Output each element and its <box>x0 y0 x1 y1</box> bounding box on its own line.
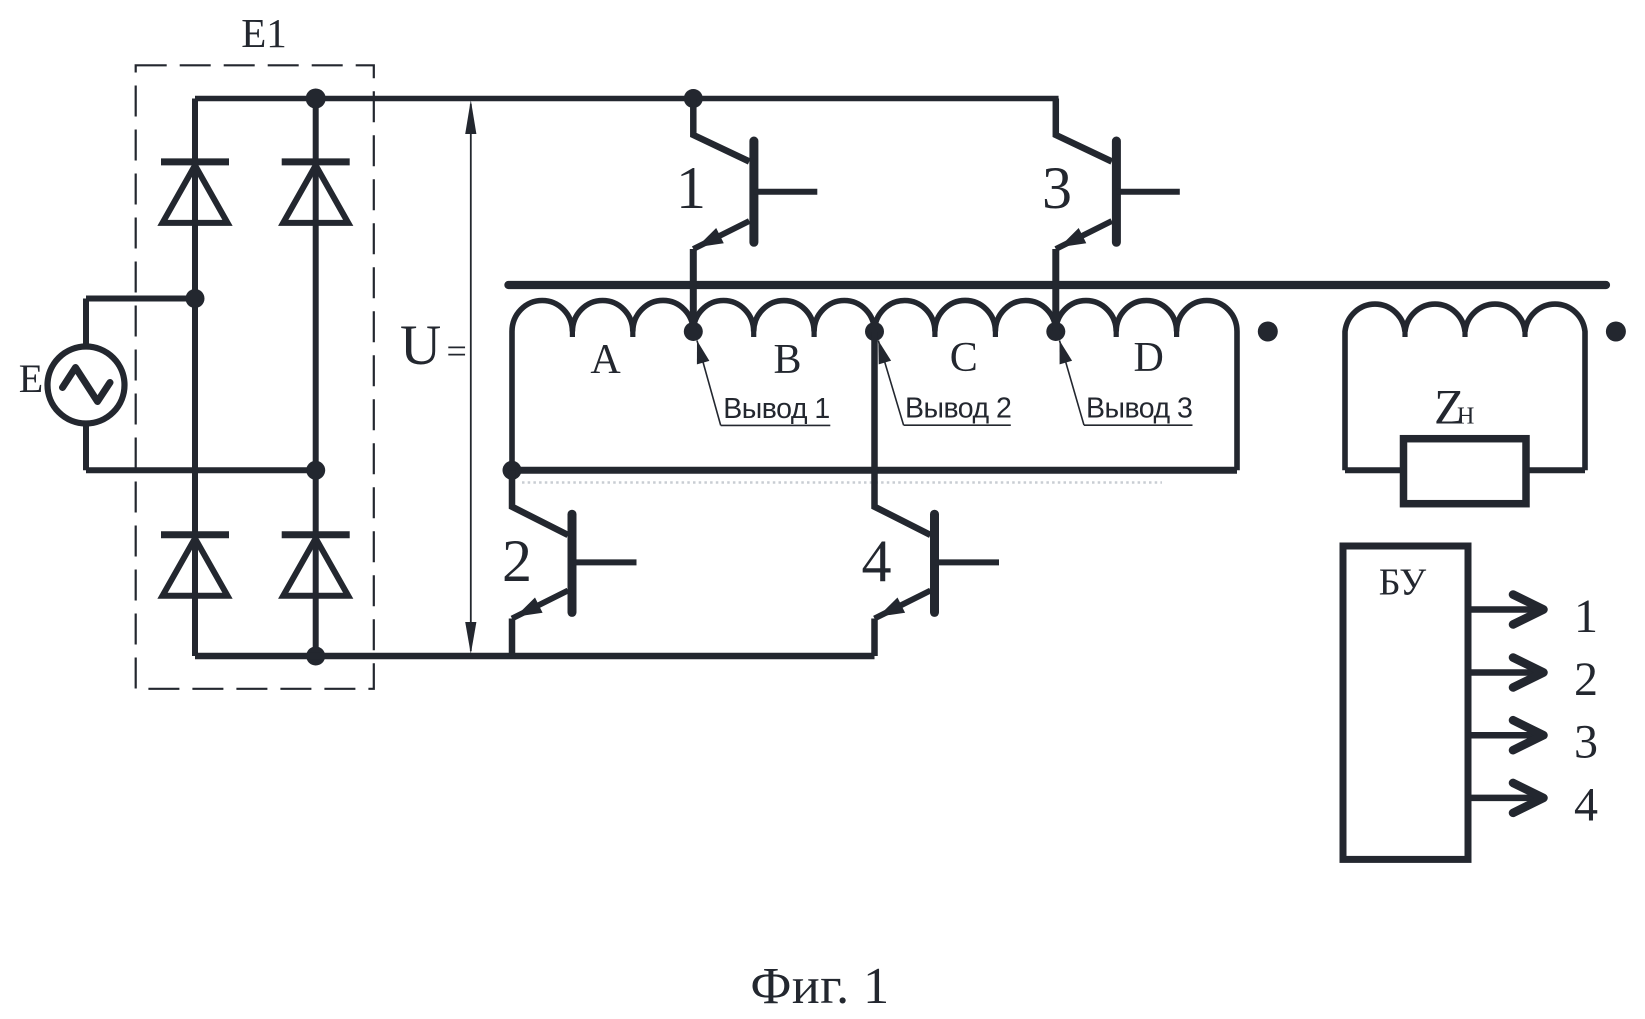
svg-text:U: U <box>400 314 441 377</box>
svg-text:E1: E1 <box>241 10 287 56</box>
svg-text:Вывод 3: Вывод 3 <box>1086 393 1192 425</box>
svg-text:C: C <box>950 335 978 381</box>
svg-text:H: H <box>1457 403 1474 429</box>
svg-text:1: 1 <box>1574 590 1598 643</box>
svg-text:3: 3 <box>1042 155 1072 221</box>
svg-text:Фиг. 1: Фиг. 1 <box>750 958 889 1015</box>
svg-text:Вывод 1: Вывод 1 <box>723 393 829 425</box>
svg-text:2: 2 <box>1574 653 1598 706</box>
svg-text:D: D <box>1134 335 1164 381</box>
svg-text:B: B <box>773 337 801 383</box>
svg-text:A: A <box>590 337 621 383</box>
svg-text:1: 1 <box>676 155 706 221</box>
svg-text:3: 3 <box>1574 716 1598 769</box>
svg-text:E: E <box>19 356 43 401</box>
svg-text:=: = <box>447 331 467 371</box>
svg-text:2: 2 <box>502 528 532 594</box>
svg-text:Вывод 2: Вывод 2 <box>905 393 1011 425</box>
svg-text:4: 4 <box>862 528 892 594</box>
svg-text:4: 4 <box>1574 778 1598 831</box>
svg-text:БУ: БУ <box>1379 562 1426 604</box>
